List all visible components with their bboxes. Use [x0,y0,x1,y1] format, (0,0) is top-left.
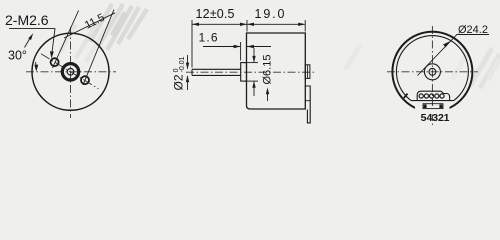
dim 11.5 extension line 1 [53,11,79,69]
dim 1.6 line right with left arrow [247,46,271,48]
bottom chord [411,100,454,102]
pin circles [419,94,423,98]
svg-text:Ø6.15: Ø6.15 [261,55,273,85]
motor body [247,33,306,109]
dim Ø2 text rotated [172,56,187,90]
svg-text:19.0: 19.0 [255,7,285,21]
rear boss protrusion [305,65,310,79]
extension line shaft tip [191,20,193,68]
rear shaft circle [429,68,436,75]
inner circle (flattened at bottom chord) [396,36,468,101]
vertical centerline [70,27,72,118]
extension line body left top [246,20,248,32]
extension line body right top [304,20,306,32]
shaft circle [67,69,74,76]
outer circle [392,32,472,112]
leader arrowhead [50,51,54,58]
dim Ø6.15 vertical line [253,48,255,62]
svg-text:1: 1 [444,112,450,124]
svg-text:12±0.5: 12±0.5 [196,7,235,21]
watermark stripes cluster left [60,4,147,62]
angle arc arrow down at centerline [35,62,38,69]
angle leader line [25,37,32,48]
svg-text:-0.01: -0.01 [179,56,186,72]
svg-text:Ø24.2: Ø24.2 [458,24,488,36]
dim Ø2 tolerance vertical [187,55,189,69]
vertical centerline [431,26,433,127]
watermark stripes cluster right [345,45,500,88]
dim Ø24.2 leader [418,35,490,76]
rear connector tab [305,86,311,123]
horizontal centerline [186,71,314,73]
motor body circle [32,33,109,110]
mounting hole 2 [81,76,89,84]
svg-text:30°: 30° [8,49,27,63]
arrow up at body bottom [267,90,269,101]
patch hiding outer circle bottom behind connector [415,106,450,115]
extension lines bushing top/bottom [244,62,258,64]
dim line top [192,23,305,25]
pin numbers 54321 [421,112,450,124]
keying notch bottom-left [404,94,408,98]
shaft [192,68,241,70]
horizontal centerline [387,71,478,73]
dim 11.5 dimension line [64,13,115,38]
mounting hole 1 [51,58,59,66]
dim 11.5 extension line 2 [83,10,114,86]
svg-text:1.6: 1.6 [199,31,218,45]
connector lower slot [423,104,443,109]
leader underline 2-M2.6 [9,29,55,57]
dim 1.6 line left with right arrow [203,46,240,48]
shaft boss circle [62,64,78,80]
horizontal centerline [26,71,116,73]
bushing [241,63,247,82]
rear center boss circle [424,64,440,80]
svg-text:Ø2: Ø2 [172,74,186,90]
angle leader arrowhead [28,33,33,40]
extension line bushing left [240,42,242,61]
diagonal centerline through holes [41,54,99,89]
connector rounded rect with pins [417,91,449,100]
svg-text:2-M2.6: 2-M2.6 [5,12,49,28]
